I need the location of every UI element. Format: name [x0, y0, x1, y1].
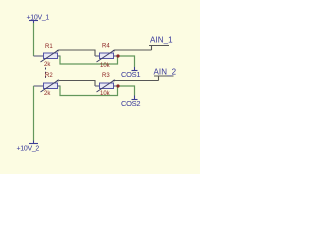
svg-text:2k: 2k — [44, 91, 51, 97]
svg-text:COS2: COS2 — [121, 99, 140, 108]
svg-text:AIN_1: AIN_1 — [150, 36, 173, 45]
svg-text:10k: 10k — [100, 63, 111, 69]
svg-text:R1: R1 — [45, 44, 53, 50]
svg-text:2k: 2k — [44, 62, 51, 68]
svg-text:AIN_2: AIN_2 — [154, 68, 177, 77]
svg-text:10k: 10k — [100, 91, 111, 97]
svg-text:COS1: COS1 — [121, 70, 140, 79]
svg-text:R4: R4 — [102, 44, 110, 50]
svg-text:+10V_2: +10V_2 — [17, 146, 40, 153]
svg-text:R2: R2 — [45, 73, 53, 79]
svg-text:R3: R3 — [102, 73, 110, 79]
